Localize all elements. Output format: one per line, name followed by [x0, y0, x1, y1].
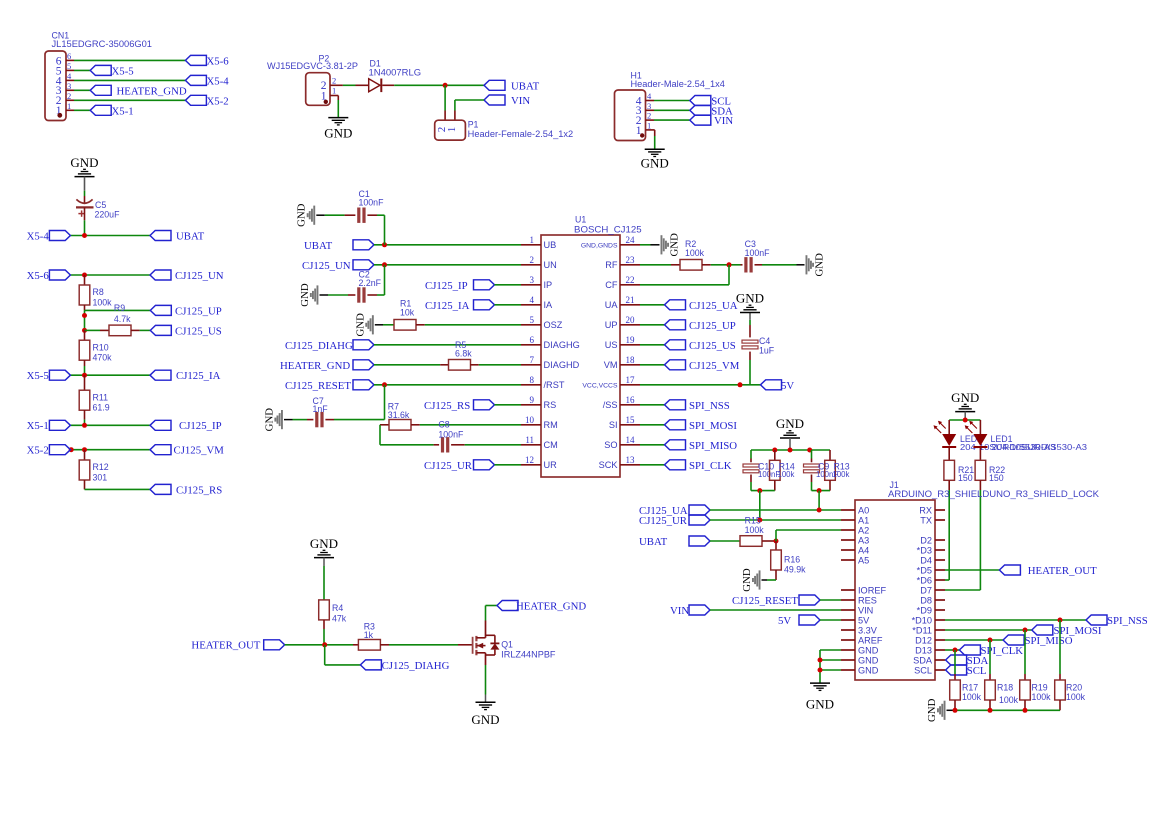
svg-text:U1: U1 [575, 215, 586, 225]
wire X5-1 to CJ125_IP [70, 424, 150, 426]
junction bottom left pair [757, 488, 762, 493]
wire J1 GND pins to ground [820, 650, 841, 683]
svg-text:D7: D7 [920, 585, 932, 595]
svg-text:CJ125_IA: CJ125_IA [176, 370, 221, 382]
svg-text:3: 3 [647, 101, 651, 111]
wire H1 pin3 to SDA [646, 109, 690, 111]
net flag CJ125_UA at U1 [640, 300, 738, 312]
svg-text:6: 6 [67, 51, 71, 61]
wire filter block top rail [751, 449, 830, 451]
svg-text:SPI_NSS: SPI_NSS [689, 400, 730, 412]
LED LED1 204-10SURD/S530-A3 [965, 420, 1087, 452]
svg-text:2: 2 [647, 111, 651, 121]
resistor R5 6.8k [440, 340, 521, 370]
svg-text:1: 1 [446, 127, 458, 133]
net flag VIN at J1 [670, 605, 710, 617]
capacitor C8 100nF [380, 420, 521, 453]
svg-text:X5-6: X5-6 [207, 55, 230, 67]
svg-text:IA: IA [544, 300, 554, 310]
svg-text:CJ125_RESET: CJ125_RESET [285, 380, 351, 392]
svg-text:R18: R18 [997, 683, 1013, 693]
net flag CJ125_DIAHG at Q1 [360, 660, 449, 672]
wire CN1 pin3 to HEATER_GND [66, 89, 90, 91]
svg-text:X5-2: X5-2 [207, 95, 229, 107]
svg-text:R12: R12 [93, 462, 109, 472]
svg-text:/RST: /RST [544, 380, 565, 390]
svg-text:GND: GND [806, 697, 834, 712]
wire R16 to ground [762, 579, 777, 581]
svg-text:CJ125_DIAHG: CJ125_DIAHG [285, 340, 353, 352]
wire filter bottom right pair [812, 490, 831, 492]
resistor R22 150 [975, 448, 1005, 491]
svg-text:GND: GND [471, 712, 499, 727]
svg-text:2: 2 [67, 91, 71, 101]
junction HEATER_OUT node [322, 642, 327, 647]
wire HEATER_GND to R5 [374, 364, 440, 366]
svg-text:100k: 100k [1032, 692, 1052, 702]
wire CJ125_IP to U1 pin3 [495, 284, 522, 286]
ground at R16 [741, 568, 761, 592]
connector H1 Header-Male-2.54_1x4 [615, 71, 726, 141]
svg-text:13: 13 [626, 455, 636, 465]
svg-text:CJ125_UR: CJ125_UR [424, 460, 473, 472]
svg-text:CJ125_IP: CJ125_IP [179, 420, 222, 432]
wire J1 SDA to flag [944, 659, 947, 661]
resistor R2 100k [671, 239, 741, 270]
wire U1 pin17 VCC to 5V [640, 384, 761, 386]
svg-text:Header-Male-2.54_1x4: Header-Male-2.54_1x4 [631, 79, 726, 89]
svg-text:14: 14 [626, 435, 636, 445]
junction GND pin3 [818, 668, 823, 673]
svg-text:GND: GND [263, 408, 275, 432]
junction rail R18 [988, 708, 993, 713]
wire CN1 pin6 to X5-6 [66, 59, 185, 61]
svg-text:UBAT: UBAT [639, 536, 668, 548]
wire C1 down to UB line [384, 215, 386, 245]
resistor R4 47k [319, 566, 347, 645]
svg-text:100k: 100k [745, 525, 765, 535]
net flag SPI_MOSI at U1 [640, 420, 737, 432]
net flag CJ125_DIAHG at U1 [285, 340, 374, 352]
svg-text:DIAGHG: DIAGHG [544, 340, 580, 350]
junction /RST line [382, 382, 387, 387]
svg-text:D12: D12 [915, 635, 932, 645]
svg-text:GND: GND [310, 536, 338, 551]
svg-text:R19: R19 [1032, 683, 1048, 693]
svg-text:1uF: 1uF [759, 345, 775, 355]
svg-text:470k: 470k [93, 353, 113, 363]
svg-text:A2: A2 [858, 525, 869, 535]
LED LED2 204-10SURD/S530-A3 [934, 420, 1056, 452]
net flag CJ125_IP left [150, 420, 222, 432]
svg-text:6: 6 [530, 335, 535, 345]
svg-text:GND: GND [926, 698, 938, 722]
net flag CJ125_IP at U1 [425, 280, 495, 292]
wire 5V to J1 [820, 619, 841, 621]
svg-text:X5-1: X5-1 [112, 105, 134, 117]
net flag X5-5 left [27, 370, 71, 382]
wire CJ125_RESET to J1 RES [820, 599, 841, 601]
svg-text:100k: 100k [93, 297, 113, 307]
svg-text:8: 8 [530, 375, 535, 385]
wire R3 to Q1 gate [458, 644, 472, 646]
svg-text:GND: GND [741, 568, 753, 592]
resistor R16 49.9k [771, 541, 806, 580]
svg-text:CJ125_VM: CJ125_VM [174, 445, 225, 457]
wire J1 D10 to SPI_NSS [945, 619, 1086, 621]
wire H1 pin4 to SCL [646, 100, 690, 102]
transistor Q1 IRLZ44NPBF nmos [473, 621, 557, 666]
resistor R18 100k [985, 680, 1019, 710]
svg-text:GND,GNDS: GND,GNDS [581, 242, 618, 249]
wire CJ125_UR to J1 A1 [710, 519, 841, 521]
wire R8 to CJ125_UP [85, 309, 151, 311]
net flag CJ125_UP at U1 [640, 320, 736, 332]
capacitor C10 100nF [743, 450, 780, 491]
svg-text:4: 4 [530, 295, 535, 305]
svg-text:IP: IP [544, 280, 553, 290]
svg-text:TX: TX [920, 515, 932, 525]
wire X5-5 to CJ125_IA [70, 374, 150, 376]
wire UBAT junction down to P1 pin2 [444, 85, 446, 120]
svg-text:CJ125_UR: CJ125_UR [639, 515, 688, 527]
net flag CJ125_VM at U1 [640, 360, 740, 372]
net flag X5-6 [185, 55, 229, 67]
net flag X5-5 [90, 65, 134, 77]
capacitor C7 1nF [284, 396, 385, 428]
svg-text:CJ125_VM: CJ125_VM [689, 360, 740, 372]
junction X5-5 node [82, 373, 87, 378]
resistor R15 100k [740, 516, 776, 547]
svg-text:100k: 100k [999, 695, 1019, 705]
svg-text:SDA: SDA [913, 655, 933, 665]
junction top rail gnd [788, 448, 793, 453]
svg-text:150: 150 [989, 473, 1004, 483]
junction GND pin2 [818, 658, 823, 663]
svg-text:D4: D4 [920, 555, 932, 565]
wire VIN to J1 [710, 609, 841, 611]
svg-text:RM: RM [544, 420, 558, 430]
wire CJ125_RS to U1 pin9 [495, 404, 522, 406]
svg-text:R8: R8 [93, 287, 104, 297]
net flag UBAT left [150, 230, 205, 242]
svg-text:CJ125_UP: CJ125_UP [175, 305, 222, 317]
svg-text:IRLZ44NPBF: IRLZ44NPBF [501, 649, 556, 659]
resistor R12 301 [79, 450, 109, 490]
net flag CJ125_UR at J1 [639, 515, 710, 527]
net flag X5-4 [185, 75, 229, 87]
net flag HEATER_OUT at J1 [999, 565, 1097, 577]
connector P1 Header-Female-2.54_1x2 [435, 120, 574, 141]
ground at C3 [806, 253, 826, 277]
svg-text:2.2nF: 2.2nF [359, 278, 382, 288]
wire UBAT to R15 [710, 540, 740, 542]
svg-text:204-10SURD/S530-A3: 204-10SURD/S530-A3 [992, 443, 1088, 452]
svg-text:VIN: VIN [511, 95, 530, 107]
wire CJ125_RESET to U1 pin8 /RST [374, 384, 521, 386]
svg-text:RX: RX [919, 505, 932, 515]
svg-text:VIN: VIN [670, 605, 689, 617]
svg-text:GND: GND [299, 283, 311, 307]
net flag X5-2 left [27, 445, 71, 457]
wire CN1 pin2 to X5-2 [66, 99, 185, 101]
svg-text:61.9: 61.9 [93, 403, 110, 413]
net flag HEATER_OUT left [191, 640, 284, 652]
wire R18 vertical [989, 640, 991, 680]
ground above filter block [776, 416, 804, 450]
net flag CJ125_RESET at U1 [285, 380, 374, 392]
svg-text:10k: 10k [400, 307, 415, 317]
svg-text:RF: RF [605, 260, 618, 270]
svg-text:A3: A3 [858, 535, 869, 545]
wire Q1 source to ground [485, 665, 487, 702]
wire ground to C5 [84, 191, 86, 204]
svg-text:UR: UR [544, 460, 558, 470]
svg-text:RS: RS [544, 400, 557, 410]
capacitor C1 100nF [316, 189, 384, 223]
net flag UBAT at J1 [639, 536, 710, 548]
svg-text:*D10: *D10 [912, 615, 932, 625]
junction A1 line [757, 518, 762, 523]
svg-text:1k: 1k [364, 630, 374, 640]
svg-text:VCC,VCCS: VCC,VCCS [582, 382, 618, 389]
svg-text:X5-5: X5-5 [27, 370, 49, 382]
svg-text:1: 1 [332, 86, 336, 96]
ground at R1 [354, 313, 374, 337]
junction at X5-2 flag [69, 447, 74, 452]
net flag X5-6 left [27, 270, 71, 282]
svg-text:D8: D8 [920, 595, 932, 605]
wire H1 pin1 to ground [646, 130, 655, 149]
junction X5-6 node [82, 273, 87, 278]
svg-text:100nF: 100nF [745, 248, 771, 258]
svg-text:22: 22 [626, 275, 635, 285]
svg-text:*D5: *D5 [917, 565, 932, 575]
wire C5 to X5-4 node [84, 207, 86, 235]
capacitor C9 100nF [804, 450, 839, 491]
svg-text:SPI_MOSI: SPI_MOSI [689, 420, 737, 432]
junction R15-R16-A2 [774, 539, 779, 544]
wire X5-6 to CJ125_UN [70, 274, 150, 276]
wire CJ125_UR to U1 pin12 [495, 464, 522, 466]
net flag SCL [690, 96, 731, 108]
svg-text:10: 10 [525, 415, 535, 425]
svg-text:A4: A4 [858, 545, 869, 555]
svg-text:CJ125_UA: CJ125_UA [689, 300, 738, 312]
svg-text:100nF: 100nF [438, 429, 464, 439]
svg-text:SI: SI [609, 420, 618, 430]
svg-text:X5-2: X5-2 [27, 445, 49, 457]
wire R21 to J1 D6 [945, 490, 949, 580]
wire R15 junction up to J1 A2 [776, 530, 841, 541]
svg-text:X5-6: X5-6 [27, 270, 50, 282]
svg-text:GND: GND [951, 390, 979, 405]
connector P2 WJ15EDGVC-3.81-2P [267, 54, 358, 106]
svg-text:GND: GND [641, 155, 669, 170]
wire U1 pin23 RF to R2 [640, 264, 671, 266]
net flag X5-1 [90, 105, 134, 117]
svg-text:UBAT: UBAT [511, 80, 540, 92]
net flag HEATER_GND at U1 [280, 360, 374, 372]
junction D10-R20 [1058, 618, 1063, 623]
svg-text:*D6: *D6 [917, 575, 932, 585]
connector CN1 JL15EDGRC-35006G01 [45, 31, 152, 121]
net flag CJ125_VM left [150, 445, 224, 457]
svg-text:R10: R10 [93, 342, 109, 352]
net flag CJ125_UR at U1 [424, 460, 495, 472]
svg-text:X5-1: X5-1 [27, 420, 49, 432]
junction D13-R17 [953, 648, 958, 653]
wire CN1 pin5 to X5-5 [66, 69, 90, 71]
junction R9 tap [82, 328, 87, 333]
wire U1 pin24 to ground [640, 244, 660, 246]
svg-text:1N4007RLG: 1N4007RLG [369, 68, 422, 78]
net flag SDA [690, 105, 733, 117]
svg-text:ARDUINO_R3_SHIELDUNO_R3_SHIELD: ARDUINO_R3_SHIELDUNO_R3_SHIELD_LOCK [888, 489, 1099, 499]
svg-text:1: 1 [530, 235, 535, 245]
net flag SPI_NSS at J1 [1086, 615, 1148, 627]
net flag CJ125_UP left [150, 305, 222, 317]
ground at C2 [299, 283, 319, 307]
svg-text:DIAGHD: DIAGHD [544, 360, 580, 370]
svg-text:24: 24 [626, 235, 636, 245]
svg-text:1: 1 [647, 121, 651, 131]
svg-text:R11: R11 [93, 392, 109, 402]
svg-text:UA: UA [605, 300, 619, 310]
svg-text:9: 9 [530, 395, 535, 405]
resistor R10 470k [79, 330, 112, 375]
junction rail R19 [1023, 708, 1028, 713]
svg-text:CJ125_US: CJ125_US [175, 325, 222, 337]
svg-text:CJ125_UN: CJ125_UN [175, 270, 224, 282]
svg-text:R20: R20 [1066, 683, 1082, 693]
svg-text:3: 3 [530, 275, 535, 285]
svg-text:100k: 100k [1066, 692, 1086, 702]
wire X5-4 to UBAT [70, 235, 150, 237]
ground above C5 [70, 155, 98, 191]
svg-text:GND: GND [858, 645, 879, 655]
wire CJ125_UN to U1 pin2 UN [374, 264, 521, 266]
svg-text:A1: A1 [858, 515, 869, 525]
wire R20 vertical [1059, 620, 1061, 680]
svg-text:GND: GND [296, 203, 308, 227]
svg-text:100k: 100k [778, 470, 795, 479]
svg-text:5V: 5V [778, 615, 791, 627]
resistor R13 100k [825, 450, 850, 491]
wire to CJ125_DIAHG flag [325, 645, 361, 665]
svg-text:220uF: 220uF [95, 209, 121, 219]
net flag CJ125_UN left [150, 270, 224, 282]
wire J1 D12 to SPI_MISO [945, 639, 1003, 641]
pin1 marker dot P2 [324, 100, 328, 104]
resistor R7 31.6k [380, 402, 521, 431]
svg-text:6.8k: 6.8k [455, 348, 472, 358]
net flag UBAT at U1 [304, 240, 374, 252]
svg-text:100k: 100k [833, 470, 850, 479]
svg-text:3: 3 [67, 81, 71, 91]
wire HEATER_OUT to R3 [285, 644, 353, 646]
pin1 marker dot CN1 [57, 113, 62, 118]
svg-text:GND: GND [814, 253, 826, 277]
svg-text:IOREF: IOREF [858, 585, 886, 595]
svg-text:D13: D13 [915, 645, 932, 655]
svg-text:UP: UP [605, 320, 618, 330]
svg-text:VIN: VIN [714, 115, 733, 127]
svg-text:49.9k: 49.9k [784, 564, 806, 574]
net flag SPI_NSS at U1 [640, 400, 730, 412]
IC J1 ARDUINO_R3_SHIELD / UNO_R3_SHIELD_LOCK [841, 480, 1099, 680]
wire pulldown bottom rail [947, 709, 1061, 711]
resistor R3 1k [353, 622, 458, 651]
junction top rail C10 [772, 448, 777, 453]
wire P2 pin1 to ground [330, 96, 338, 118]
wire CJ125_UA to J1 A0 [710, 509, 841, 511]
svg-text:CJ125_DIAHG: CJ125_DIAHG [382, 660, 450, 672]
wire UBAT to U1 pin1 UB [374, 244, 521, 246]
svg-text:VM: VM [604, 360, 618, 370]
svg-text:4.7k: 4.7k [114, 314, 131, 324]
wire C2 up to UN line [384, 265, 386, 295]
wire H1 pin2 to VIN [646, 119, 690, 121]
net flag VIN top [484, 95, 530, 107]
net flag SPI_MOSI at J1 [1032, 625, 1102, 637]
svg-text:R4: R4 [332, 603, 343, 613]
svg-text:100k: 100k [685, 248, 705, 258]
wire J1 D5 to HEATER_OUT [945, 569, 999, 571]
svg-text:15: 15 [626, 415, 636, 425]
svg-text:7: 7 [530, 355, 535, 365]
net flag X5-1 left [27, 420, 71, 432]
svg-text:AREF: AREF [858, 635, 883, 645]
svg-text:1: 1 [67, 101, 71, 111]
svg-text:US: US [605, 340, 618, 350]
junction top rail C9 [807, 448, 812, 453]
junction UBAT P1 [443, 83, 448, 88]
svg-text:HEATER_GND: HEATER_GND [516, 600, 586, 612]
wire J1 D13 to SPI_CLK [945, 649, 959, 651]
svg-text:SCL: SCL [967, 665, 987, 677]
svg-text:CJ125_RS: CJ125_RS [424, 400, 470, 412]
svg-text:X5-5: X5-5 [112, 65, 134, 77]
wire R17 vertical [954, 650, 956, 680]
svg-text:*D11: *D11 [912, 625, 932, 635]
svg-text:UBAT: UBAT [176, 230, 205, 242]
capacitor C3 100nF [741, 239, 805, 273]
svg-text:5: 5 [67, 61, 71, 71]
wire CN1 pin1 to X5-1 [66, 109, 90, 111]
junction UN line [382, 262, 387, 267]
wire left pair down to A1 line [759, 491, 761, 520]
svg-text:21: 21 [626, 295, 635, 305]
svg-text:17: 17 [626, 375, 636, 385]
svg-text:UB: UB [544, 240, 557, 250]
net flag CJ125_RS left [150, 484, 222, 496]
ground above R4 [310, 536, 338, 566]
svg-text:CJ125_UN: CJ125_UN [302, 260, 351, 272]
svg-text:A0: A0 [858, 505, 869, 515]
wire R7 left down to C8 [379, 425, 381, 445]
svg-text:Header-Female-2.54_1x2: Header-Female-2.54_1x2 [468, 129, 574, 139]
svg-text:5V: 5V [781, 380, 794, 392]
resistor R8 100k [79, 275, 112, 310]
junction RF-CF node [727, 262, 732, 267]
wire J1 D11 to SPI_MOSI [945, 629, 1032, 631]
svg-text:C8: C8 [438, 420, 449, 430]
svg-text:CJ125_IP: CJ125_IP [425, 280, 468, 292]
ground below J1 [806, 683, 834, 711]
svg-text:16: 16 [626, 395, 636, 405]
svg-text:SCL: SCL [914, 665, 932, 675]
